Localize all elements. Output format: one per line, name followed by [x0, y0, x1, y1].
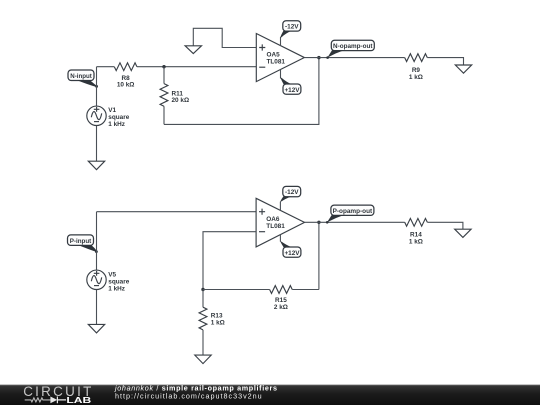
node flag P-input	[68, 235, 98, 253]
op-amp OA6	[256, 198, 304, 247]
svg-text:V5: V5	[108, 271, 116, 278]
svg-text:square: square	[108, 278, 129, 285]
ground right of R14	[455, 229, 471, 237]
resistor R13	[199, 290, 225, 356]
CircuitLab logo LAB	[66, 395, 91, 405]
svg-text:N-opamp-out: N-opamp-out	[333, 43, 373, 50]
resistor R11	[160, 67, 189, 125]
svg-text:+12V: +12V	[284, 250, 300, 257]
voltage source V1	[87, 67, 130, 162]
svg-text:TL081: TL081	[267, 58, 286, 65]
svg-text:LAB: LAB	[66, 395, 91, 405]
svg-text:R13: R13	[211, 313, 223, 320]
node junction R8/R11	[162, 65, 165, 68]
svg-text:TL081: TL081	[266, 223, 285, 230]
svg-text:1 kΩ: 1 kΩ	[409, 239, 423, 246]
voltage source V5	[87, 212, 130, 325]
wire OA6 inverting input to R13/R15 node	[203, 232, 256, 290]
footer bar	[0, 385, 540, 405]
resistor R9	[405, 54, 428, 81]
wire R14 to ground	[427, 222, 463, 229]
ground below V5	[88, 324, 104, 333]
CircuitLab logo CIRCUIT	[23, 384, 93, 399]
svg-text:OA6: OA6	[266, 216, 280, 223]
svg-text:2 kΩ: 2 kΩ	[274, 304, 288, 311]
node flag +12V (OA5 V+)	[280, 77, 301, 94]
svg-text:1 kΩ: 1 kΩ	[409, 74, 423, 81]
wire feedback riser	[318, 222, 320, 289]
svg-text:P-opamp-out: P-opamp-out	[333, 208, 373, 215]
wire OA5 output	[304, 57, 404, 59]
resistor R14	[405, 218, 428, 245]
svg-text:V1: V1	[108, 107, 116, 114]
node flag P-opamp-out	[326, 205, 374, 224]
svg-text:P-input: P-input	[70, 238, 92, 245]
node flag N-input	[68, 70, 98, 88]
svg-text:1 kΩ: 1 kΩ	[211, 320, 225, 327]
svg-text:R14: R14	[410, 232, 422, 239]
footer url line	[115, 392, 263, 401]
wire OA6 output	[305, 221, 405, 223]
wire R8 to OA5 inverting input	[137, 66, 256, 68]
footer title line	[114, 383, 278, 392]
svg-text:+12V: +12V	[284, 87, 300, 94]
wire feedback bottom	[164, 58, 319, 125]
CircuitLab logo resistor-diode line	[25, 397, 66, 404]
wire P-input node to OA6 + input	[97, 211, 257, 213]
svg-text:1 kHz: 1 kHz	[108, 121, 125, 128]
ground at OA5 non-inverting input	[185, 46, 201, 54]
node output junction OA5	[317, 56, 320, 59]
node flag N-opamp-out	[326, 40, 374, 59]
svg-text:http://circuitlab.com/caput8c3: http://circuitlab.com/caput8c33v2nu	[115, 392, 263, 401]
svg-text:-12V: -12V	[285, 189, 299, 196]
svg-text:10 kΩ: 10 kΩ	[117, 82, 135, 89]
wire R9 to ground	[427, 58, 463, 65]
op-amp OA5	[256, 34, 304, 82]
svg-text:OA5: OA5	[267, 51, 281, 58]
svg-text:N-input: N-input	[70, 73, 92, 80]
node flag +12V (OA6 V+)	[280, 241, 301, 257]
node junction R13/R15	[201, 288, 204, 291]
resistor R15	[203, 286, 319, 311]
resistor R8	[114, 63, 137, 89]
node flag -12V (OA5 V-)	[280, 21, 301, 38]
svg-text:20 kΩ: 20 kΩ	[172, 97, 190, 104]
node flag -12V (OA6 V-)	[280, 186, 301, 202]
ground right of R9	[455, 65, 471, 73]
wire ground reference to OA5 + input	[193, 28, 256, 47]
ground below V1	[88, 161, 104, 170]
wire N-input node to R8	[97, 66, 115, 68]
svg-text:-12V: -12V	[285, 24, 299, 31]
ground below R13	[195, 355, 211, 364]
svg-text:1 kHz: 1 kHz	[108, 285, 125, 292]
svg-text:R15: R15	[275, 297, 287, 304]
svg-text:square: square	[108, 114, 129, 121]
svg-text:R9: R9	[412, 67, 421, 74]
node output junction OA6	[317, 221, 320, 224]
